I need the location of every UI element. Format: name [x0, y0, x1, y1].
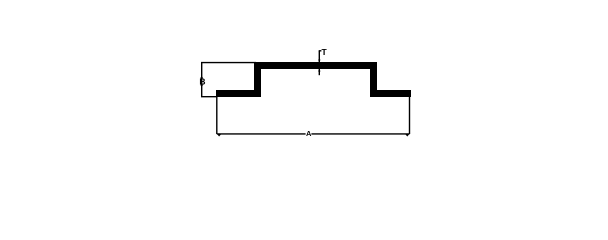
- svg-text:T: T: [322, 47, 328, 57]
- svg-text:B: B: [199, 77, 205, 87]
- svg-text:A: A: [306, 129, 312, 138]
